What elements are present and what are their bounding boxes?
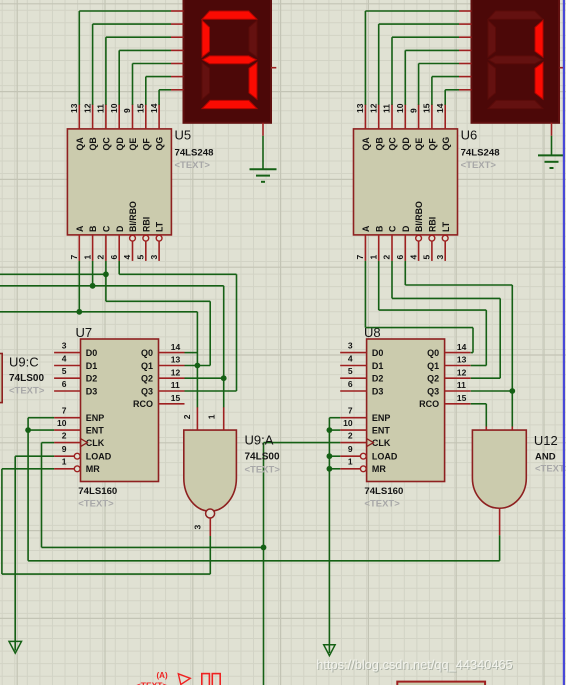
svg-text:QF: QF xyxy=(428,138,438,151)
svg-text:ENP: ENP xyxy=(86,413,105,423)
svg-text:14: 14 xyxy=(149,103,159,113)
svg-text:<TEXT>: <TEXT> xyxy=(136,681,168,686)
svg-text:74LS160: 74LS160 xyxy=(364,486,403,497)
svg-text:9: 9 xyxy=(122,108,132,113)
svg-text:1: 1 xyxy=(368,255,378,260)
svg-text:D: D xyxy=(401,226,411,232)
svg-text:2: 2 xyxy=(382,255,392,260)
svg-text:B: B xyxy=(88,226,98,232)
svg-text:U9:C: U9:C xyxy=(9,355,39,370)
svg-text:C: C xyxy=(102,225,112,232)
svg-text:AND: AND xyxy=(535,452,556,463)
svg-text:QE: QE xyxy=(128,138,138,151)
svg-text:Q2: Q2 xyxy=(427,374,439,384)
svg-text:2: 2 xyxy=(96,255,106,260)
svg-text:14: 14 xyxy=(435,103,445,113)
svg-text:LT: LT xyxy=(155,221,165,232)
svg-text:15: 15 xyxy=(457,393,467,403)
svg-text:QB: QB xyxy=(374,137,384,150)
svg-text:Q3: Q3 xyxy=(141,386,153,396)
svg-text:RCO: RCO xyxy=(419,399,439,409)
svg-text:ENT: ENT xyxy=(86,425,105,435)
svg-text:ENT: ENT xyxy=(372,425,391,435)
svg-text:5: 5 xyxy=(348,366,353,376)
svg-text:15: 15 xyxy=(136,103,146,113)
svg-text:74LS00: 74LS00 xyxy=(9,373,44,384)
svg-text:2: 2 xyxy=(348,430,353,440)
svg-text:Q0: Q0 xyxy=(427,348,439,358)
svg-text:14: 14 xyxy=(171,342,181,352)
svg-text:<TEXT>: <TEXT> xyxy=(9,386,45,397)
svg-text:11: 11 xyxy=(171,380,180,390)
svg-text:4: 4 xyxy=(122,255,132,260)
svg-text:4: 4 xyxy=(408,255,418,260)
svg-text:2: 2 xyxy=(62,430,67,440)
svg-text:ENP: ENP xyxy=(372,413,391,423)
svg-text:QB: QB xyxy=(88,137,98,150)
svg-text:6: 6 xyxy=(348,379,353,389)
svg-text:QD: QD xyxy=(115,137,125,150)
svg-text:11: 11 xyxy=(96,104,106,113)
svg-text:11: 11 xyxy=(457,380,466,390)
svg-text:Q2: Q2 xyxy=(141,374,153,384)
svg-text:MR: MR xyxy=(372,464,386,474)
svg-text:C: C xyxy=(388,225,398,232)
svg-text:A: A xyxy=(361,225,371,232)
svg-text:<TEXT>: <TEXT> xyxy=(535,464,566,475)
svg-text:LOAD: LOAD xyxy=(372,452,398,462)
svg-text:10: 10 xyxy=(343,418,353,428)
svg-text:QF: QF xyxy=(141,138,151,151)
svg-text:LOAD: LOAD xyxy=(86,452,112,462)
svg-text:12: 12 xyxy=(457,367,467,377)
svg-text:11: 11 xyxy=(382,104,392,113)
svg-text:7: 7 xyxy=(62,406,67,416)
svg-text:3: 3 xyxy=(348,340,353,350)
svg-text:4: 4 xyxy=(348,353,353,363)
svg-text:74LS248: 74LS248 xyxy=(461,148,501,159)
svg-text:D0: D0 xyxy=(372,348,384,358)
svg-text:RBI: RBI xyxy=(428,217,438,232)
svg-text:B: B xyxy=(374,226,384,232)
svg-text:5: 5 xyxy=(136,255,146,260)
svg-text:1: 1 xyxy=(62,457,67,467)
svg-text:<TEXT>: <TEXT> xyxy=(175,160,211,171)
svg-text:D: D xyxy=(115,226,125,232)
svg-text:Q1: Q1 xyxy=(141,361,153,371)
svg-text:QG: QG xyxy=(441,137,451,151)
svg-text:7: 7 xyxy=(355,255,365,260)
svg-text:<TEXT>: <TEXT> xyxy=(245,465,281,476)
svg-text:<TEXT>: <TEXT> xyxy=(78,499,114,510)
svg-text:Q3: Q3 xyxy=(427,386,439,396)
svg-text:A: A xyxy=(75,225,85,232)
svg-text:<TEXT>: <TEXT> xyxy=(461,160,497,171)
svg-text:BI/RBO: BI/RBO xyxy=(128,201,138,232)
svg-text:15: 15 xyxy=(171,393,181,403)
svg-text:D2: D2 xyxy=(372,374,384,384)
svg-text:U12: U12 xyxy=(534,433,558,448)
svg-text:U5: U5 xyxy=(175,128,192,143)
svg-text:CLK: CLK xyxy=(372,438,391,448)
svg-text:CLK: CLK xyxy=(86,438,105,448)
svg-text:BI/RBO: BI/RBO xyxy=(414,201,424,232)
svg-text:13: 13 xyxy=(355,103,365,113)
svg-text:D1: D1 xyxy=(372,361,384,371)
svg-text:<TEXT>: <TEXT> xyxy=(364,499,400,510)
svg-text:https://blog.csdn.net/qq_44340: https://blog.csdn.net/qq_44340465 xyxy=(316,657,512,672)
svg-text:QC: QC xyxy=(102,137,112,151)
svg-text:6: 6 xyxy=(395,255,405,260)
svg-text:13: 13 xyxy=(457,355,467,365)
svg-text:LT: LT xyxy=(441,221,451,232)
svg-text:10: 10 xyxy=(57,418,67,428)
svg-text:13: 13 xyxy=(171,355,181,365)
svg-text:QE: QE xyxy=(414,138,424,151)
svg-text:1: 1 xyxy=(207,414,217,419)
svg-text:QC: QC xyxy=(388,137,398,151)
svg-text:D3: D3 xyxy=(372,386,384,396)
svg-text:3: 3 xyxy=(62,340,67,350)
svg-text:2: 2 xyxy=(182,414,192,419)
svg-text:13: 13 xyxy=(69,103,79,113)
svg-text:12: 12 xyxy=(171,367,181,377)
svg-text:12: 12 xyxy=(368,103,378,113)
svg-text:10: 10 xyxy=(395,103,405,113)
svg-text:6: 6 xyxy=(109,255,119,260)
svg-text:14: 14 xyxy=(457,342,467,352)
svg-text:Q0: Q0 xyxy=(141,348,153,358)
svg-text:3: 3 xyxy=(435,255,445,260)
svg-text:74LS248: 74LS248 xyxy=(175,148,215,159)
svg-text:10: 10 xyxy=(109,103,119,113)
svg-text:5: 5 xyxy=(422,255,432,260)
svg-text:MR: MR xyxy=(86,464,100,474)
svg-text:QD: QD xyxy=(401,137,411,150)
svg-text:74LS00: 74LS00 xyxy=(245,452,280,463)
svg-text:1: 1 xyxy=(82,255,92,260)
svg-text:U9:A: U9:A xyxy=(245,433,274,448)
svg-text:D3: D3 xyxy=(86,386,98,396)
svg-text:9: 9 xyxy=(408,108,418,113)
svg-text:74LS160: 74LS160 xyxy=(78,486,117,497)
svg-text:QA: QA xyxy=(361,137,371,151)
svg-text:QG: QG xyxy=(155,137,165,151)
svg-text:(A): (A) xyxy=(157,671,168,680)
svg-text:9: 9 xyxy=(62,444,67,454)
svg-text:D2: D2 xyxy=(86,374,98,384)
svg-text:7: 7 xyxy=(69,255,79,260)
svg-text:U7: U7 xyxy=(76,325,93,340)
svg-text:7: 7 xyxy=(348,406,353,416)
svg-text:12: 12 xyxy=(82,103,92,113)
svg-text:3: 3 xyxy=(149,255,159,260)
svg-text:6: 6 xyxy=(62,379,67,389)
svg-text:1: 1 xyxy=(348,457,353,467)
svg-text:4: 4 xyxy=(62,353,67,363)
svg-text:RCO: RCO xyxy=(133,399,153,409)
svg-text:D0: D0 xyxy=(86,348,98,358)
svg-text:RBI: RBI xyxy=(141,217,151,232)
svg-text:QA: QA xyxy=(75,137,85,151)
svg-text:15: 15 xyxy=(422,103,432,113)
svg-text:Q1: Q1 xyxy=(427,361,439,371)
svg-text:D1: D1 xyxy=(86,361,98,371)
svg-text:9: 9 xyxy=(348,444,353,454)
svg-text:U6: U6 xyxy=(461,128,478,143)
svg-text:5: 5 xyxy=(62,366,67,376)
svg-text:3: 3 xyxy=(193,525,203,530)
